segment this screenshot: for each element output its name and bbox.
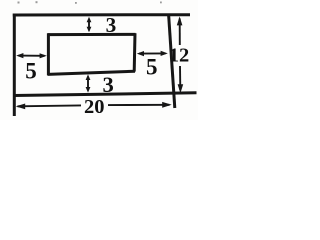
svg-text:5: 5 [146, 55, 158, 80]
dimension arrow: bottom 3 (vertical double arrow) [87, 77, 89, 90]
dimension arrow: 20 right part (right arrow to right extension) [108, 104, 170, 106]
outer rectangle top edge (extends right as extension line for 12) [13, 13, 190, 16]
dimension arrow: 20 left part (left arrow to left extension) [18, 104, 82, 107]
outer rectangle right edge (slanted, extends down for 20) [169, 15, 175, 109]
dimension arrow: left 5 (horizontal double arrow) [19, 55, 45, 57]
svg-text:3: 3 [106, 13, 117, 37]
inner rectangle left edge [47, 33, 50, 75]
outer rectangle left edge (extends down as extension line for 20) [13, 14, 16, 117]
dimension arrow: 12 lower part (down arrow to bottom edge) [179, 66, 181, 90]
svg-text:20: 20 [84, 96, 105, 118]
inner rectangle top edge [48, 33, 136, 36]
svg-text:5: 5 [25, 59, 37, 84]
outer rectangle bottom edge (extends right for 12) [14, 93, 197, 96]
inner rectangle bottom edge [48, 71, 135, 74]
svg-text:12: 12 [169, 45, 190, 67]
inner rectangle right edge [133, 33, 137, 71]
dimension arrow: top 3 (vertical double arrow) [88, 19, 90, 31]
scan specks along top [18, 1, 162, 4]
dimension arrow: right 5 (horizontal double arrow) [139, 52, 166, 54]
svg-text:3: 3 [103, 72, 114, 97]
dimension arrow: 12 upper part (up arrow to top edge) [179, 19, 181, 46]
